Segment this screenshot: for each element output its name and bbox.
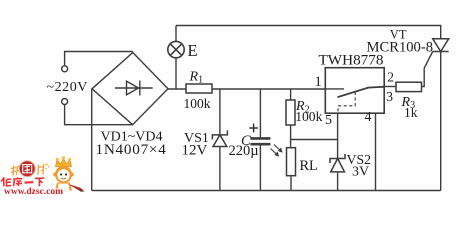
- sparkle: [45, 163, 49, 169]
- watermark decorative glyphs (zhao tu pian): [11, 161, 50, 177]
- svg-text:R1: R1: [189, 70, 204, 86]
- crown: [56, 159, 72, 167]
- svg-text:100k: 100k: [295, 109, 322, 124]
- svg-text:1k: 1k: [404, 105, 418, 120]
- IC internal pin1 contact line: [325, 88, 344, 90]
- wire top-left input to bridge top: [65, 52, 133, 66]
- resistor R3: [396, 82, 422, 91]
- terminal bottom: [62, 99, 68, 105]
- red disc: [19, 161, 35, 177]
- wire bridge right vertex to R1: [168, 88, 186, 90]
- svg-text:3: 3: [386, 89, 393, 104]
- watermark mascot: [53, 156, 85, 191]
- head: [55, 166, 72, 183]
- wire pin5 branch to R2/RL junction: [291, 139, 338, 141]
- zener diode VS2: [330, 154, 345, 172]
- resistor R2: [286, 100, 295, 125]
- svg-text:3V: 3V: [352, 164, 369, 179]
- wire R3 to thyristor gate: [422, 52, 433, 87]
- glyph zhao: [11, 166, 16, 176]
- capacitor C plates: [250, 138, 270, 144]
- wire main rail R1 to IC pin1: [212, 88, 325, 90]
- wire lamp column: [175, 26, 177, 42]
- wire bottom terminal to bridge bottom vertex: [65, 105, 133, 125]
- watermark text weiku-yixia (drawn strokes): [1, 177, 44, 186]
- eyes / face: [60, 173, 62, 175]
- svg-text:220µ: 220µ: [229, 143, 259, 159]
- arm + brush: [68, 184, 84, 191]
- svg-text:100k: 100k: [184, 96, 211, 111]
- glyph tu (white): [23, 165, 32, 173]
- top bus: [176, 26, 441, 39]
- IC U1 TWH8778 box: [325, 68, 384, 114]
- resistor R1: [186, 84, 212, 93]
- IC internal dashed control link: [338, 92, 355, 113]
- wire VS1 column: [219, 89, 221, 135]
- wire bridge left vertex down to bottom bus: [91, 89, 93, 191]
- svg-text:4: 4: [365, 110, 372, 125]
- IC internal switch arm: [337, 87, 384, 97]
- svg-text:5: 5: [325, 113, 332, 128]
- wire thyristor cathode down to bus: [440, 52, 442, 191]
- ears: [53, 173, 56, 176]
- svg-text:12V: 12V: [182, 143, 208, 159]
- char wei: [1, 177, 11, 186]
- terminal top: [62, 66, 68, 72]
- bridge rectifier VD1~VD4 diamond: [92, 53, 168, 125]
- wire pin5 down with VS2: [337, 113, 339, 158]
- svg-text:MCR100-8: MCR100-8: [367, 39, 434, 55]
- lamp E: [168, 41, 184, 57]
- photoresistor RL: [287, 148, 296, 176]
- wire pin4 down to bus: [375, 113, 377, 190]
- char ku: [13, 177, 22, 186]
- light arrows: [271, 145, 282, 156]
- svg-text:1N4007×4: 1N4007×4: [96, 141, 167, 158]
- wire RL to bus: [290, 176, 292, 191]
- svg-text:~220V: ~220V: [47, 80, 88, 95]
- glyph pian: [38, 164, 44, 175]
- body: [55, 183, 72, 191]
- char yi: [25, 181, 34, 184]
- wire capacitor column: [259, 89, 261, 137]
- zener diode VS1: [212, 130, 227, 146]
- wire pin2 to R3: [384, 86, 396, 88]
- svg-text:RL: RL: [300, 158, 318, 174]
- svg-text:1: 1: [315, 74, 322, 90]
- bridge diode symbol: [115, 81, 153, 96]
- svg-text:www.dzsc.com: www.dzsc.com: [4, 186, 63, 195]
- plus sign (C): [249, 124, 258, 133]
- wire R2 column: [290, 89, 292, 100]
- thyristor VT symbol: [433, 39, 449, 52]
- char xia: [35, 178, 45, 186]
- svg-text:E: E: [188, 41, 198, 60]
- svg-text:2: 2: [387, 70, 394, 85]
- watermark url www.dzsc.com: [4, 186, 63, 197]
- bottom bus: [92, 190, 441, 192]
